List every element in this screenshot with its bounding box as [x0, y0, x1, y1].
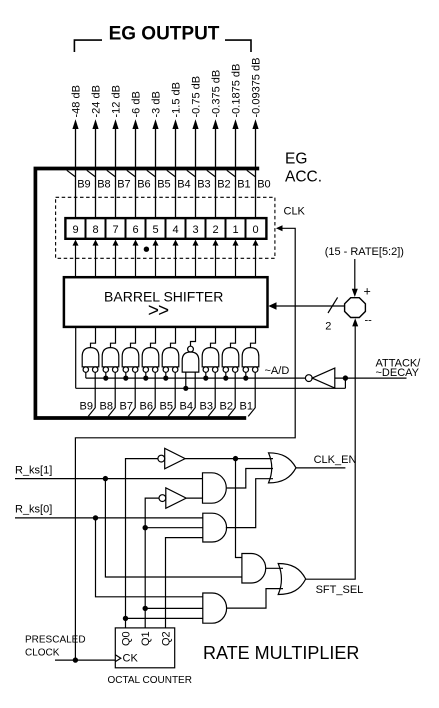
bus width slash [328, 297, 338, 313]
bit line B8 (gate input from bus) [108, 372, 115, 416]
bus tap slash + label B5 (top) [147, 170, 171, 190]
wire U3 output to AND A3 [236, 459, 242, 558]
EG output arrow / dB label B9 (-48 dB) [70, 85, 82, 218]
bus tap slash + label B1 (top) [227, 170, 251, 190]
inverter U4 (Q1) [159, 488, 186, 508]
barrel shifter output wire bit 5 (into register) [153, 240, 159, 278]
bit line B3 (gate input from bus) [208, 372, 215, 416]
svg-text:B4: B4 [180, 401, 193, 413]
svg-text:B1: B1 [240, 401, 253, 413]
wire Q0 branch to AND A4 [126, 617, 203, 619]
junction gate G6 on ~A/D line [143, 376, 148, 381]
gate G7 output jog to shifter [131, 328, 136, 348]
svg-text:CLK: CLK [284, 206, 306, 218]
svg-text:(15 - RATE[5:2]): (15 - RATE[5:2]) [325, 246, 404, 258]
EG output arrow / dB label B0 (-0.09375 dB) [250, 58, 262, 219]
EG output arrow / dB label B8 (-24 dB) [90, 85, 102, 218]
OR gate O2 (SFT_SEL) [278, 564, 306, 595]
bus tap slash + label B0 (top) [247, 170, 271, 190]
gate G6 (AND, inverted inputs) for bit B6 [142, 348, 159, 373]
register cell divider 4 [165, 218, 167, 239]
svg-text:+: + [364, 285, 371, 299]
svg-text:--: -- [365, 315, 373, 327]
junction Q0 to AND A4 [123, 616, 128, 621]
svg-text:B3: B3 [200, 401, 213, 413]
gate G5 output jog to shifter [171, 328, 176, 348]
gate G4 (NAND output bubble) for bit B4 [182, 346, 199, 372]
register cell divider 8 [245, 218, 247, 239]
gate G1 ~A/D input stub [245, 372, 247, 378]
gate G1 (AND, inverted inputs) for bit B1 [242, 348, 259, 373]
svg-text:2: 2 [325, 320, 331, 332]
gate G6 ~A/D input stub [145, 372, 147, 378]
barrel shifter output wire bit 8 (into register) [93, 240, 99, 278]
svg-text:Q2: Q2 [160, 631, 172, 646]
prescaled clock wire [55, 659, 115, 661]
gate G8 ~A/D input stub [105, 372, 107, 378]
gate G9 (AND, inverted inputs) for bit B9 [82, 348, 99, 373]
svg-text:0: 0 [252, 224, 258, 236]
CLK_EN output wire [296, 467, 345, 469]
wire A3 output to OR O2 [266, 567, 284, 569]
gate G8 (AND, inverted inputs) for bit B8 [102, 348, 119, 373]
svg-text:CLK_EN: CLK_EN [314, 454, 357, 466]
svg-text:-0.375 dB: -0.375 dB [210, 70, 222, 118]
CLK wire (register to prescaled clock line) [75, 228, 295, 660]
svg-text:B6: B6 [140, 401, 153, 413]
barrel shifter output wire bit 7 (into register) [113, 240, 119, 278]
barrel shifter output wire bit 1 (into register) [233, 240, 239, 278]
junction U3 output branch [233, 456, 238, 461]
barrel shifter U1 box [64, 277, 268, 327]
svg-text:CK: CK [123, 653, 139, 665]
junction gate G4 on A/D line [183, 386, 188, 391]
junction: A/D branch [343, 375, 348, 380]
wire A2 output to OR O1 [226, 479, 273, 528]
EG output arrow / dB label B6 (-6 dB) [130, 91, 142, 218]
svg-text:1: 1 [232, 224, 238, 236]
bus tap slash + label B8 (top) [87, 170, 111, 190]
OR gate O1 (CLK_EN) [269, 453, 297, 483]
wire A1 output to OR O1 [227, 469, 273, 489]
svg-text:5: 5 [152, 224, 158, 236]
PRESCALED CLOCK input label [25, 635, 86, 659]
svg-text:RATE MULTIPLIER: RATE MULTIPLIER [203, 643, 359, 663]
svg-text:-0.1875 dB: -0.1875 dB [230, 64, 242, 118]
svg-text:EG: EG [285, 151, 307, 168]
octal counter box [115, 628, 174, 668]
EG output arrow / dB label B4 (-1.5 dB) [170, 82, 182, 218]
EG output arrow / dB label B7 (-12 dB) [110, 85, 122, 218]
shift-amount wire (adder to shifter) [276, 305, 345, 307]
AND gate A4 [203, 593, 227, 623]
svg-text:B7: B7 [117, 179, 130, 191]
gate G7 (AND, inverted inputs) for bit B7 [122, 348, 139, 373]
arrowhead into shifter right edge [268, 302, 276, 310]
Q1 wire (counter to inverter U4) [145, 498, 159, 628]
barrel shifter output wire bit 9 (into register) [73, 240, 79, 278]
wire R_ks[1] to AND A3 [105, 479, 242, 577]
counter clock wedge [115, 655, 121, 662]
svg-text:B9: B9 [80, 401, 93, 413]
bit line B7 (gate input from bus) [128, 372, 135, 416]
wire U4 output to AND A1 [186, 497, 202, 499]
junction gate G1 on ~A/D line [243, 376, 248, 381]
gate G5 ~A/D input stub [165, 372, 167, 378]
svg-text:-48 dB: -48 dB [70, 85, 82, 117]
bit line B5 (gate input from bus) [168, 372, 175, 416]
CLK arrowhead into register [276, 225, 283, 231]
barrel shifter output wire bit 0 (into register) [253, 240, 259, 278]
wire Q1 branch to AND A2 [145, 527, 203, 529]
svg-text:B6: B6 [137, 179, 150, 191]
junction gate G2 on ~A/D line [223, 376, 228, 381]
bus tap slash + label B6 (top) [127, 170, 151, 190]
svg-text:B1: B1 [237, 179, 250, 191]
bus tap slash + label B3 (top) [187, 170, 211, 190]
R_ks[1] input wire [15, 478, 203, 480]
Q2 wire (counter to AND A2) [166, 538, 203, 628]
gate G8 output jog to shifter [111, 328, 116, 348]
register cell divider 2 [125, 218, 127, 239]
wire Q1 branch to AND A4 [145, 607, 203, 609]
register cell divider 7 [225, 218, 227, 239]
gate G3 output jog to shifter [211, 328, 216, 348]
svg-text:-0.09375 dB: -0.09375 dB [250, 58, 262, 118]
svg-text:2: 2 [212, 224, 218, 236]
~A/D line (inverter output to gate inputs) [86, 377, 306, 379]
barrel shifter text [104, 289, 223, 322]
svg-text:B5: B5 [160, 401, 173, 413]
bit line B2 (gate input from bus) [228, 372, 235, 416]
gate G7 ~A/D input stub [125, 372, 127, 378]
register cell divider 6 [205, 218, 207, 239]
A/D line (non-inverted, lower) [76, 387, 346, 389]
barrel shifter output wire bit 3 (into register) [193, 240, 199, 278]
svg-text:-6 dB: -6 dB [130, 91, 142, 117]
svg-text:B4: B4 [177, 179, 190, 191]
register cell divider 1 [105, 218, 107, 239]
EG output arrow / dB label B5 (-3 dB) [150, 91, 162, 218]
gate G5 (AND, inverted inputs) for bit B5 [162, 348, 179, 373]
svg-text:~A/D: ~A/D [265, 365, 290, 377]
accumulator dashed boundary box [56, 197, 275, 258]
register cell divider 0 [85, 218, 87, 239]
gate G9 output jog to shifter [91, 328, 96, 348]
gate G2 output jog to shifter [231, 328, 236, 348]
junction: CLK wire on prescaled clock line [73, 657, 78, 662]
inverter U2 (attack/decay, points left) [305, 368, 334, 388]
gate G9 ~A/D input stub [85, 372, 87, 378]
junction Q1 to AND A2 [143, 525, 148, 530]
wire rate label to adder [354, 259, 356, 290]
wire A4 output to OR O2 [227, 589, 283, 609]
svg-text:Q1: Q1 [140, 631, 152, 646]
svg-text:EG OUTPUT: EG OUTPUT [109, 24, 220, 45]
svg-text:R_ks[1]: R_ks[1] [15, 465, 52, 477]
wire SFT_SEL to adder bottom [306, 326, 356, 580]
svg-text:-0.75 dB: -0.75 dB [190, 76, 202, 118]
register cell divider 5 [185, 218, 187, 239]
svg-text:B0: B0 [257, 179, 270, 191]
bit line B4 (gate input from bus) [188, 372, 195, 416]
gate G2 ~A/D input stub [225, 372, 227, 378]
bus tap slash + label B2 (top) [207, 170, 231, 190]
gate G4 A/D input stub [185, 372, 187, 388]
svg-text:-3 dB: -3 dB [150, 91, 162, 117]
EG ACC. label [285, 151, 322, 186]
adder/subtractor node [345, 298, 366, 318]
svg-text:B3: B3 [197, 179, 210, 191]
gate G2 (AND, inverted inputs) for bit B2 [222, 348, 239, 373]
svg-text:B8: B8 [100, 401, 113, 413]
svg-text:~DECAY: ~DECAY [376, 367, 420, 379]
EG output arrow / dB label B3 (-0.75 dB) [190, 76, 202, 218]
ATTACK/~DECAY input wire [335, 377, 407, 379]
wire A/D line to shifter bottom pin B9 slot [75, 327, 77, 388]
inverter U3 (Q0) [158, 448, 185, 468]
svg-text:7: 7 [112, 224, 118, 236]
binary point dot [144, 247, 149, 252]
svg-text:B7: B7 [120, 401, 133, 413]
AND gate A3 [242, 554, 266, 584]
gate G3 (AND, inverted inputs) for bit B3 [202, 348, 219, 373]
EG output arrow / dB label B2 (-0.375 dB) [210, 70, 222, 218]
AND gate A2 [203, 513, 227, 542]
EG OUTPUT title bracket [74, 40, 251, 52]
svg-text:ACC.: ACC. [285, 169, 322, 186]
Q0 wire (counter to inverter U3) [126, 459, 158, 628]
svg-text:OCTAL COUNTER: OCTAL COUNTER [108, 675, 192, 686]
svg-text:SFT_SEL: SFT_SEL [316, 584, 364, 596]
svg-text:3: 3 [192, 224, 198, 236]
EG output arrow / dB label B1 (-0.1875 dB) [230, 64, 242, 219]
wire U3 output to OR O1 [185, 458, 273, 460]
junction gate G5 on ~A/D line [163, 376, 168, 381]
barrel shifter output wire bit 2 (into register) [213, 240, 219, 278]
gate G1 output jog to shifter [251, 328, 256, 348]
svg-text:B8: B8 [97, 179, 110, 191]
svg-text:6: 6 [132, 224, 138, 236]
svg-text:B5: B5 [157, 179, 170, 191]
svg-text:>>: >> [148, 301, 169, 322]
svg-text:8: 8 [92, 224, 98, 236]
svg-text:4: 4 [172, 224, 178, 236]
svg-text:-12 dB: -12 dB [110, 85, 122, 117]
svg-text:B2: B2 [217, 179, 230, 191]
junction gate G8 on ~A/D line [103, 376, 108, 381]
bit line B9 (gate input from bus) [88, 372, 95, 416]
svg-text:PRESCALED: PRESCALED [25, 635, 86, 646]
svg-text:B9: B9 [77, 179, 90, 191]
junction gate G7 on ~A/D line [123, 376, 128, 381]
svg-text:9: 9 [72, 224, 78, 236]
bus tap slash + label B7 (top) [107, 170, 131, 190]
feedback bus (thick wire loop: top, left, bottom) [35, 169, 259, 419]
svg-text:Q0: Q0 [120, 631, 132, 646]
gate G6 output jog to shifter [151, 328, 156, 348]
bit line B1 (gate input from bus) [248, 372, 255, 416]
barrel shifter output wire bit 6 (into register) [133, 240, 139, 278]
AND gate A1 [203, 473, 227, 503]
register cell divider 3 [145, 218, 147, 239]
svg-text:-24 dB: -24 dB [90, 85, 102, 117]
svg-text:-1.5 dB: -1.5 dB [170, 82, 182, 117]
R_ks[0] input wire [15, 517, 203, 519]
stub to lower A/D line [344, 378, 346, 388]
accumulator register box [65, 218, 266, 239]
junction gate G3 on ~A/D line [203, 376, 208, 381]
wire R_ks[0] to AND A4 [96, 518, 203, 597]
bus tap slash + label B9 (top) [67, 170, 91, 190]
junction R_ks[1] branch [103, 476, 108, 481]
bus tap slash + label B4 (top) [167, 170, 191, 190]
svg-text:CLOCK: CLOCK [25, 648, 60, 659]
svg-text:B2: B2 [220, 401, 233, 413]
bit line B6 (gate input from bus) [148, 372, 155, 416]
ATTACK/~DECAY label [376, 358, 422, 379]
junction R_ks[0] branch [93, 515, 98, 520]
svg-text:R_ks[0]: R_ks[0] [15, 504, 52, 516]
arrowhead into adder bottom (-) [352, 318, 358, 326]
barrel shifter output wire bit 4 (into register) [173, 240, 179, 278]
junction Q1 to AND A4 [143, 606, 148, 611]
gate G4 output jog to shifter [191, 328, 196, 346]
gate G3 ~A/D input stub [205, 372, 207, 378]
arrowhead into adder top (+) [352, 289, 358, 297]
